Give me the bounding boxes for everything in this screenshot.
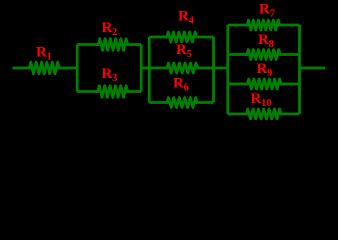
- wire R9 branch left lead: [228, 83, 249, 86]
- wire R6 branch left lead: [149, 101, 168, 104]
- resistor R4: [167, 32, 197, 42]
- svg-text:R: R: [257, 61, 268, 77]
- svg-text:10: 10: [261, 98, 272, 109]
- wire R4 branch right lead: [196, 36, 214, 39]
- node bar right of block A: [140, 45, 143, 92]
- svg-text:2: 2: [112, 27, 117, 38]
- svg-text:3: 3: [112, 73, 117, 84]
- svg-text:6: 6: [184, 82, 189, 93]
- node bar right of block B: [212, 37, 215, 103]
- node bar left of block B: [148, 37, 151, 103]
- resistor R5: [167, 63, 197, 73]
- wire R3 branch left lead: [77, 90, 99, 93]
- wire R3 branch right lead: [127, 90, 142, 93]
- resistor R2: [99, 39, 128, 51]
- svg-text:R: R: [102, 66, 113, 82]
- svg-text:R: R: [259, 1, 270, 17]
- svg-text:5: 5: [187, 49, 192, 60]
- wire block A to block B: [140, 67, 151, 70]
- svg-text:R: R: [102, 20, 113, 36]
- wire R2 branch left lead: [77, 43, 99, 46]
- svg-text:R: R: [258, 32, 269, 48]
- node bar left of block A: [76, 45, 79, 92]
- node bar right of block C: [298, 25, 301, 114]
- svg-text:R: R: [176, 42, 187, 58]
- svg-text:R: R: [36, 44, 47, 60]
- wire R8 branch right lead: [279, 53, 300, 56]
- wire R6 branch right lead: [196, 101, 214, 104]
- resistor R6: [167, 98, 197, 108]
- wire R8 branch left lead: [228, 53, 248, 56]
- wire R2 branch right lead: [127, 43, 142, 46]
- wire R10 branch left lead: [228, 113, 248, 116]
- wire R1 to parallel block A: [58, 67, 79, 70]
- resistor R7: [247, 20, 279, 30]
- wire R7 branch right lead: [279, 24, 300, 27]
- wire input lead: [13, 67, 31, 70]
- svg-text:7: 7: [270, 8, 275, 19]
- svg-text:4: 4: [189, 15, 195, 26]
- svg-text:R: R: [173, 75, 184, 91]
- svg-text:8: 8: [269, 39, 274, 50]
- resistor R1: [30, 62, 60, 74]
- svg-text:9: 9: [267, 68, 272, 79]
- resistor R8: [247, 50, 280, 60]
- wire R5 branch left lead: [149, 67, 168, 70]
- resistor R10: [247, 109, 282, 119]
- wire R7 branch left lead: [228, 24, 248, 27]
- wire R4 branch left lead: [149, 36, 168, 39]
- wire output lead: [299, 67, 326, 70]
- wire block B to block C: [213, 67, 230, 70]
- svg-text:1: 1: [47, 51, 52, 62]
- resistor R9: [248, 79, 282, 89]
- wire R5 branch right lead: [196, 67, 213, 70]
- svg-text:R: R: [178, 8, 189, 24]
- node bar left of block C: [226, 25, 229, 114]
- wire R10 branch right lead: [280, 113, 300, 116]
- resistor R3: [98, 86, 128, 98]
- svg-text:R: R: [251, 91, 262, 107]
- wire R9 branch right lead: [280, 83, 300, 86]
